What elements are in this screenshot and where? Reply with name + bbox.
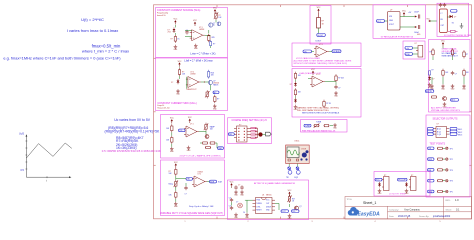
svg-text:TP2: TP2 bbox=[450, 159, 453, 161]
svg-text:R?: R? bbox=[432, 70, 434, 72]
svg-text:SEE NOTES IN THE DOCS FOR DETA: SEE NOTES IN THE DOCS FOR DETAILS bbox=[302, 111, 340, 114]
svg-text:WITHOUT DISTURBING THE FREQ CI: WITHOUT DISTURBING THE FREQ CIRCUIT (SEE… bbox=[294, 63, 348, 65]
svg-text:CTRL: CTRL bbox=[256, 206, 260, 208]
svg-text:EasyEDA: EasyEDA bbox=[358, 212, 381, 218]
svg-text:TEST POINTS: TEST POINTS bbox=[430, 142, 446, 145]
svg-text:LM358: LM358 bbox=[190, 73, 195, 75]
svg-text:C5: C5 bbox=[229, 206, 231, 208]
svg-text:TP3: TP3 bbox=[450, 170, 453, 172]
svg-text:OUT: OUT bbox=[266, 203, 269, 205]
svg-text:C4: C4 bbox=[229, 198, 231, 200]
svg-text:OUT: OUT bbox=[441, 25, 445, 27]
svg-text:0R5: 0R5 bbox=[212, 37, 215, 39]
svg-text:SEL3: SEL3 bbox=[458, 135, 462, 137]
svg-text:555: 555 bbox=[292, 211, 295, 213]
svg-text:2V4: 2V4 bbox=[168, 32, 171, 34]
svg-text:Sheet:: Sheet: bbox=[446, 208, 453, 211]
svg-text:fmax=0.5/t: fmax=0.5/t bbox=[157, 14, 166, 17]
svg-text:PULLUP: PULLUP bbox=[398, 180, 406, 182]
svg-text:Q?: Q? bbox=[213, 23, 215, 25]
svg-text:I_fall = C * (tFall + 2K) max: I_fall = C * (tFall + 2K) max bbox=[184, 60, 214, 63]
svg-text:R?: R? bbox=[430, 52, 432, 54]
svg-text:where t_min = 2 * C / Imax: where t_min = 2 * C / Imax bbox=[82, 48, 129, 53]
svg-text:SEL: SEL bbox=[229, 134, 232, 136]
svg-text:GND: GND bbox=[428, 191, 433, 193]
svg-text:R?: R? bbox=[217, 98, 219, 100]
svg-text:SQR: SQR bbox=[210, 181, 215, 183]
svg-text:WILL DRIFT AWAY FROM SETTING: WILL DRIFT AWAY FROM SETTING bbox=[297, 109, 329, 112]
svg-text:GND: GND bbox=[406, 54, 411, 56]
svg-text:OSC1: OSC1 bbox=[294, 141, 299, 143]
svg-text:D?: D? bbox=[432, 79, 434, 81]
svg-text:5V REGULATOR FOR ATTINY13: 5V REGULATOR FOR ATTINY13 bbox=[381, 36, 414, 39]
svg-text:D?: D? bbox=[171, 82, 173, 84]
svg-text:REV:: REV: bbox=[446, 200, 451, 202]
svg-text:Your Company: Your Company bbox=[404, 208, 421, 211]
svg-text:CONSTANT CURRENT SOURCE (5mA): CONSTANT CURRENT SOURCE (5mA) bbox=[157, 9, 201, 12]
svg-text:RESET: RESET bbox=[256, 210, 261, 212]
svg-text:TITLE:: TITLE: bbox=[347, 199, 353, 201]
svg-text:OPAMP2OUT: OPAMP2OUT bbox=[186, 88, 196, 91]
svg-text:On/Off: On/Off bbox=[301, 148, 306, 150]
svg-text:U?: U? bbox=[437, 124, 439, 126]
svg-text:U?.3: U?.3 bbox=[319, 44, 323, 46]
svg-text:2019-07-25: 2019-07-25 bbox=[398, 215, 411, 218]
svg-text:B Q2: B Q2 bbox=[437, 131, 441, 133]
svg-text:NMOS: NMOS bbox=[213, 85, 219, 87]
svg-text:e.g. fmax=1MHz where C=1nF and: e.g. fmax=1MHz where C=1nF and both trim… bbox=[3, 55, 121, 60]
svg-text:R? 10K: R? 10K bbox=[338, 78, 345, 80]
svg-text:ATTINY13 SQUARE WAVE GENERATOR: ATTINY13 SQUARE WAVE GENERATOR bbox=[254, 182, 295, 185]
svg-text:C6: C6 bbox=[243, 212, 245, 214]
svg-text:SEL2: SEL2 bbox=[458, 132, 462, 134]
svg-text:1.0: 1.0 bbox=[455, 198, 459, 202]
svg-text:A Q1: A Q1 bbox=[437, 128, 441, 131]
svg-text:100nF: 100nF bbox=[414, 32, 419, 34]
svg-text:UCBUF: UCBUF bbox=[333, 51, 341, 53]
svg-text:ALLOWS USER TO SET MORE CURREN: ALLOWS USER TO SET MORE CURRENT THAN DAC… bbox=[294, 60, 352, 63]
svg-text:TRI: TRI bbox=[428, 148, 431, 150]
svg-text:4 DUTY CYCLE + RAMP SLOPE CONT: 4 DUTY CYCLE + RAMP SLOPE CONTROL bbox=[180, 155, 222, 158]
svg-text:fmax=0.5/t_min: fmax=0.5/t_min bbox=[157, 106, 169, 109]
svg-text:ADC INPUT CONVERTER: ADC INPUT CONVERTER bbox=[431, 106, 456, 109]
svg-text:FINE FREQ ADJUST RANGE R=0..5K: FINE FREQ ADJUST RANGE R=0..5K bbox=[302, 129, 336, 132]
svg-text:U?.4: U?.4 bbox=[316, 74, 320, 76]
svg-text:LM358: LM358 bbox=[199, 29, 204, 31]
svg-text:VCC: VCC bbox=[377, 21, 382, 23]
svg-text:0.5 =R8/5R 3/5/3K5/W 5/1K3/5 0: 0.5 =R8/5R 3/5/3K5/W 5/1K3/5 0.3K5/10K=1… bbox=[102, 149, 161, 153]
svg-text:LM358: LM358 bbox=[198, 172, 203, 174]
svg-text:UOUT: UOUT bbox=[318, 35, 324, 37]
svg-text:C?: C? bbox=[338, 88, 340, 90]
svg-text:VCC: VCC bbox=[376, 180, 381, 182]
svg-text:SEL1: SEL1 bbox=[458, 129, 462, 131]
svg-text:NE555: NE555 bbox=[266, 194, 272, 196]
svg-text:TUNE: TUNE bbox=[316, 121, 322, 123]
svg-text:SQR: SQR bbox=[428, 159, 433, 161]
svg-text:R?: R? bbox=[213, 44, 215, 46]
svg-text:TUNE: TUNE bbox=[305, 126, 311, 128]
svg-text:TRI: TRI bbox=[187, 179, 190, 181]
svg-text:Company:: Company: bbox=[389, 209, 399, 211]
svg-text:100nF: 100nF bbox=[414, 12, 419, 14]
svg-text:Uc/5: Uc/5 bbox=[19, 133, 25, 136]
svg-text:Drawn By:: Drawn By: bbox=[419, 215, 429, 218]
svg-text:DISCH: DISCH bbox=[266, 206, 272, 208]
svg-text:TP4: TP4 bbox=[450, 181, 453, 183]
svg-text:GND: GND bbox=[389, 20, 394, 22]
svg-text:SWING AROUND IT: SWING AROUND IT bbox=[442, 54, 459, 57]
svg-text:(R8)(R9)/(R7+R8)(R8)=0.1(47K)=: (R8)(R9)/(R7+R8)(R8)=0.1(47K)=5K bbox=[105, 129, 160, 133]
svg-text:COARSE FREQ SETTING (nF) x5: COARSE FREQ SETTING (nF) x5 bbox=[232, 119, 268, 122]
svg-text:U(t) = 2*f*t/C: U(t) = 2*f*t/C bbox=[81, 17, 104, 22]
svg-text:L?: L? bbox=[441, 13, 443, 15]
svg-text:Rduty: Rduty bbox=[169, 183, 174, 186]
svg-text:jonathanau2002: jonathanau2002 bbox=[432, 215, 451, 218]
svg-text:R?: R? bbox=[171, 39, 173, 41]
svg-text:D?: D? bbox=[290, 84, 292, 86]
svg-text:UOUT: UOUT bbox=[316, 41, 322, 43]
svg-text:C?: C? bbox=[238, 185, 240, 187]
svg-text:D?: D? bbox=[454, 17, 456, 19]
svg-text:Q?: Q? bbox=[299, 206, 301, 208]
svg-text:U?.2: U?.2 bbox=[198, 174, 202, 176]
svg-text:U?: U? bbox=[390, 9, 392, 11]
svg-text:Duty Cycle = Rduty / 10K: Duty Cycle = Rduty / 10K bbox=[189, 205, 214, 208]
svg-text:C?: C? bbox=[455, 74, 457, 76]
svg-text:Sheet_1: Sheet_1 bbox=[363, 201, 376, 205]
svg-text:U?: U? bbox=[415, 43, 417, 45]
svg-text:C?: C? bbox=[236, 202, 238, 204]
svg-text:R?: R? bbox=[466, 54, 468, 56]
svg-text:ADC: ADC bbox=[451, 99, 456, 102]
svg-text:I_rise = C * (Rrise + 2K): I_rise = C * (Rrise + 2K) bbox=[190, 53, 216, 56]
svg-text:I varies from Imax to 0.1Imax: I varies from Imax to 0.1Imax bbox=[67, 28, 119, 33]
svg-text:VARIABLE DUTY CYCLE SQUARE WAV: VARIABLE DUTY CYCLE SQUARE WAVE GEN (SQR… bbox=[160, 212, 223, 215]
svg-text:TRI: TRI bbox=[179, 130, 182, 132]
svg-text:SELECTOR OUTPUTS: SELECTOR OUTPUTS bbox=[433, 117, 458, 120]
svg-text:C Q3: C Q3 bbox=[437, 134, 441, 136]
svg-text:U?.1: U?.1 bbox=[190, 124, 194, 126]
svg-text:5V SUPPLY NOISE FILTER: 5V SUPPLY NOISE FILTER bbox=[444, 35, 472, 37]
svg-text:VIRTUAL GROUND CIRCUITS: VIRTUAL GROUND CIRCUITS bbox=[431, 109, 460, 112]
svg-text:TP1: TP1 bbox=[450, 148, 453, 150]
svg-text:R?: R? bbox=[322, 21, 324, 23]
svg-text:TP5: TP5 bbox=[450, 192, 453, 194]
svg-text:C?: C? bbox=[185, 194, 187, 196]
svg-text:Uc varies from 0V to 5V: Uc varies from 0V to 5V bbox=[114, 118, 151, 122]
svg-text:Date:: Date: bbox=[389, 215, 395, 218]
svg-text:VCC/2 CASE FOLLOWER: VCC/2 CASE FOLLOWER bbox=[296, 57, 320, 60]
svg-text:THRES: THRES bbox=[256, 203, 261, 205]
svg-text:DO NOT FIT THESE: DO NOT FIT THESE bbox=[389, 194, 406, 196]
svg-text:U1: U1 bbox=[262, 194, 264, 196]
